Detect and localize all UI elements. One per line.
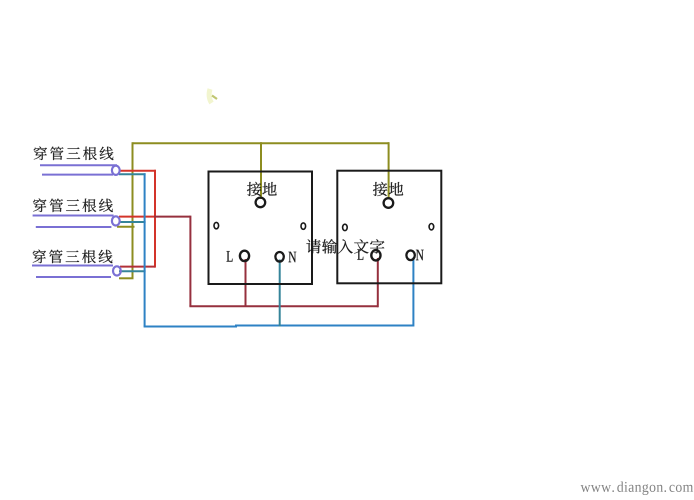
wire L vertical riser (red) (154, 170, 156, 268)
terminal XS1 N (275, 252, 283, 262)
wire N stub at conduit 2 (teal) (119, 221, 146, 223)
wire conduit 2 upper lead (purple) (33, 215, 114, 217)
terminal XS2 L (371, 250, 380, 260)
socket XS2 outline (337, 171, 441, 284)
wire conduit 1 lower lead (purple) (42, 174, 113, 176)
socket XS1 outline (209, 172, 313, 285)
wire L bottom bus (dark red) (189, 305, 377, 307)
wire PE drop into socket XS1 (green) (260, 142, 262, 199)
wire L stub at conduit 3 (red) (120, 266, 155, 268)
wire conduit 1 upper lead (purple) (40, 164, 117, 166)
wire PE stub at conduit 2 (green) (117, 226, 135, 228)
wire conduit 3 upper lead (purple) (32, 265, 113, 267)
label XS2 接地 (373, 182, 403, 196)
label placeholder 请输入文字 (306, 239, 384, 254)
terminal XS1 L (240, 251, 249, 261)
label XS1 接地 (247, 182, 277, 196)
wire PE drop into socket XS2 (green) (388, 142, 390, 199)
terminal XS2 N (406, 251, 414, 261)
XS1 right mounting hole (301, 223, 306, 229)
label conduit 2 穿管三根线 (33, 198, 113, 212)
XS2 right mounting hole (429, 224, 434, 230)
terminal XS1 PE (256, 198, 266, 208)
wire conduit 3 lower lead (purple) (36, 276, 111, 278)
conduit 3 pipe mouth (113, 266, 121, 275)
wire N bottom bus (blue) (144, 326, 414, 327)
label XS2 L (357, 249, 363, 259)
label conduit 1 穿管三根线 (34, 146, 114, 160)
XS1 left mounting hole (214, 222, 219, 228)
wire PE left drop (green) (132, 142, 134, 278)
wire PE horizontal bus (green) (133, 142, 390, 144)
watermark www.diangon.com (581, 481, 694, 495)
conduit 1 pipe mouth (112, 166, 120, 175)
wire L feeder drop (dark red) (189, 216, 191, 307)
label XS1 N (289, 252, 297, 262)
wire L riser to XS2 terminal (dark red) (377, 258, 379, 307)
wire N riser to XS2 terminal (blue) (412, 258, 414, 327)
wire conduit 2 lower lead (purple) (36, 226, 112, 228)
wire N stub at conduit 3 (teal) (119, 270, 146, 272)
wire L feeder horizontal (dark red) (154, 216, 190, 218)
label conduit 3 穿管三根线 (33, 250, 113, 264)
XS2 left mounting hole (343, 224, 348, 230)
cursor mark (209, 89, 217, 103)
wire L stub at conduit 1 (red) (119, 170, 156, 172)
label XS1 L (227, 251, 233, 261)
wire L drop from XS1 terminal (dark red) (245, 259, 247, 306)
wire N left vertical (blue) (144, 173, 146, 326)
wire PE stub at conduit 3 (green) (119, 277, 134, 279)
wire N stub at conduit 1 (teal) (119, 173, 146, 175)
terminal XS2 PE (384, 198, 394, 208)
label XS2 N (416, 250, 424, 260)
wire N drop from XS1 terminal (teal) (279, 260, 281, 327)
wire L stub at conduit 2 (red) (119, 216, 155, 218)
conduit 2 pipe mouth (112, 216, 120, 225)
